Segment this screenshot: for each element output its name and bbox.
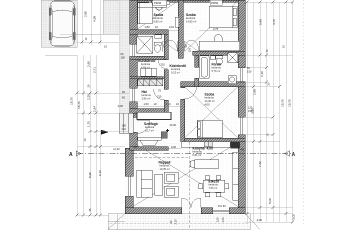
right wall window szoba mid <box>238 116 245 118</box>
svg-text:2,75: 2,75 <box>213 27 219 31</box>
bottom wall <box>125 208 182 214</box>
wall Hal/Szelfogo <box>130 109 165 114</box>
svg-text:15,70: 15,70 <box>281 99 285 107</box>
svg-text:1,10: 1,10 <box>166 102 172 106</box>
svg-text:7,56 m²: 7,56 m² <box>209 186 218 190</box>
Furdo toilet <box>216 56 223 59</box>
svg-text:9,90: 9,90 <box>171 145 177 149</box>
wall szoba mid left <box>181 87 185 88</box>
svg-text:A: A <box>292 152 296 158</box>
svg-text:7,40: 7,40 <box>258 161 262 167</box>
right outer wall <box>238 0 245 68</box>
svg-text:2,34: 2,34 <box>92 106 96 112</box>
svg-text:PR/90: PR/90 <box>154 1 162 5</box>
bathroom left wall <box>195 55 199 67</box>
svg-text:A: A <box>69 152 73 158</box>
A-A section line <box>69 151 296 158</box>
tv cabinet right wall <box>233 152 239 200</box>
bottom wall window <box>212 208 214 214</box>
WC shower <box>137 36 153 53</box>
wall under WC <box>130 56 169 60</box>
svg-text:5,00: 5,00 <box>268 198 272 204</box>
szelfogo bottom wall <box>130 147 169 151</box>
svg-text:2,10: 2,10 <box>169 25 175 29</box>
svg-text:2,60: 2,60 <box>87 61 91 67</box>
Furdo bathtub <box>200 56 210 79</box>
svg-text:5,76 m²: 5,76 m² <box>212 69 221 73</box>
svg-text:2,85: 2,85 <box>253 89 257 95</box>
wall between top rooms <box>178 0 183 58</box>
svg-text:210: 210 <box>157 95 162 99</box>
svg-text:1,60: 1,60 <box>144 102 150 106</box>
house interior base with faint tiles <box>133 0 239 150</box>
svg-text:3,00: 3,00 <box>292 214 296 220</box>
svg-text:100: 100 <box>122 124 127 128</box>
dashed lines <box>110 0 303 229</box>
svg-text:9,80 m²: 9,80 m² <box>154 19 163 23</box>
terrace <box>108 214 260 230</box>
svg-text:1,70: 1,70 <box>87 121 91 127</box>
svg-text:19,35 m²: 19,35 m² <box>160 167 170 171</box>
Furdo shower <box>228 53 238 63</box>
svg-text:4,38: 4,38 <box>93 16 97 22</box>
svg-text:150: 150 <box>121 56 126 60</box>
left lower wall window <box>125 175 133 177</box>
svg-text:210: 210 <box>122 127 127 131</box>
svg-text:±0,00: ±0,00 <box>170 123 177 127</box>
svg-text:2,71: 2,71 <box>92 67 96 73</box>
parking pad texture <box>41 0 119 55</box>
svg-text:3,96 m²: 3,96 m² <box>142 96 151 100</box>
svg-text:PR/90: PR/90 <box>211 1 219 5</box>
Szoba mid bed <box>197 120 222 138</box>
svg-text:6,81 m²: 6,81 m² <box>193 153 202 157</box>
walkway strip along house <box>119 0 130 113</box>
left outer wall lower <box>125 148 133 176</box>
armchairs <box>164 172 178 183</box>
svg-text:5,90: 5,90 <box>88 172 92 178</box>
svg-text:4,66 m²: 4,66 m² <box>141 65 150 69</box>
top windows sills <box>153 0 167 2</box>
svg-text:3,17 m²: 3,17 m² <box>145 128 154 132</box>
misc small labels <box>113 0 244 208</box>
svg-text:150: 150 <box>248 109 253 113</box>
wall Ruhatarolo/Hal <box>130 77 169 79</box>
svg-text:1,50: 1,50 <box>221 217 225 223</box>
svg-text:2,10: 2,10 <box>174 219 178 225</box>
svg-text:+45: +45 <box>240 148 245 152</box>
WC toilet <box>154 42 161 45</box>
svg-text:1,50: 1,50 <box>216 217 220 223</box>
TL wardrobe <box>138 3 153 24</box>
kitchen top wall <box>185 138 246 142</box>
dining table <box>203 180 225 192</box>
car <box>49 1 76 46</box>
svg-text:15,70: 15,70 <box>288 99 292 107</box>
svg-text:5,45: 5,45 <box>259 19 263 25</box>
Ruhatarolo cabinet <box>141 68 157 76</box>
right dim texts <box>247 19 296 222</box>
svg-text:4,00: 4,00 <box>207 147 214 151</box>
left dim texts (rotated) <box>70 11 108 212</box>
wall under top-right room <box>193 51 246 55</box>
svg-text:+0,30: +0,30 <box>113 147 120 151</box>
bottom rotated labels <box>169 217 225 225</box>
svg-text:2,80: 2,80 <box>84 11 88 17</box>
windows: thin double lines in openings <box>125 1 245 214</box>
svg-text:14,40 m²: 14,40 m² <box>205 99 215 103</box>
Hal closet row <box>138 79 163 86</box>
sofa <box>137 170 153 197</box>
svg-text:6,10: 6,10 <box>98 170 102 176</box>
left outer wall upper <box>130 0 138 44</box>
TR desk <box>199 41 239 50</box>
kitchen counter <box>181 142 230 148</box>
svg-text:120: 120 <box>248 106 253 110</box>
svg-text:150: 150 <box>247 70 252 74</box>
svg-text:3,70: 3,70 <box>272 19 276 25</box>
corridor left wall <box>164 34 168 60</box>
entry steps <box>119 113 133 133</box>
tick marks left <box>76 41 102 217</box>
svg-text:-0,30: -0,30 <box>117 104 123 108</box>
kitchen island <box>195 160 219 169</box>
Furdo washer <box>228 76 236 84</box>
top wall segments <box>133 0 153 2</box>
Szelfogo bench <box>138 137 162 140</box>
svg-text:15,70: 15,70 <box>77 101 81 109</box>
wall under top-left room <box>130 30 169 35</box>
svg-text:15,70: 15,70 <box>70 97 74 105</box>
wall under Furdo <box>181 82 246 87</box>
TR bed <box>209 6 237 28</box>
svg-text:Pro 90: Pro 90 <box>218 204 226 208</box>
svg-text:14,80 m²: 14,80 m² <box>186 19 196 23</box>
WC basin <box>155 35 162 39</box>
svg-text:1,80: 1,80 <box>145 25 151 29</box>
left wall window WC <box>130 43 138 45</box>
TL bed <box>152 1 167 7</box>
Furdo basin <box>211 56 216 60</box>
right wall window furdo <box>238 67 245 69</box>
entrance arrow <box>101 130 109 135</box>
svg-text:2,20: 2,20 <box>87 94 91 100</box>
svg-text:210: 210 <box>161 63 166 67</box>
interior dimension chains <box>133 31 240 149</box>
svg-text:9,23 m²: 9,23 m² <box>171 70 180 74</box>
svg-text:-0,30: -0,30 <box>256 218 262 222</box>
svg-text:210: 210 <box>188 47 192 52</box>
svg-text:2,10: 2,10 <box>260 71 264 77</box>
ticks right <box>246 1 294 224</box>
